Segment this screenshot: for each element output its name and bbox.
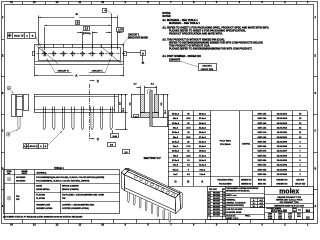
svg-text:'08: '08 (223, 212, 225, 214)
svg-text:CIRCUIT 1: CIRCUIT 1 (92, 70, 103, 72)
svg-text:POLY BAG: POLY BAG (220, 140, 231, 143)
svg-text:5267-02A: 5267-02A (258, 173, 267, 176)
svg-text:'02: '02 (223, 198, 225, 200)
svg-text:3D-MODEL NONE: 3D-MODEL NONE (226, 212, 242, 214)
svg-text:22-03-5007: 22-03-5007 (277, 151, 288, 153)
svg-text:B: B (77, 21, 79, 25)
title block outline (208, 186, 314, 219)
svg-text:SECTION V-V: SECTION V-V (144, 156, 161, 160)
svg-text:12.4±.3: 12.4±.3 (199, 164, 207, 167)
svg-text:±0.2: ±0.2 (260, 200, 263, 202)
svg-text:22-03-5008: 22-03-5008 (277, 146, 288, 148)
svg-text:DRWN: DRWN (268, 216, 272, 218)
svg-text:22-03-5003: 22-03-5003 (277, 169, 288, 171)
svg-text:18.5±.3: 18.5±.3 (172, 151, 180, 153)
svg-text:DOCUMENT STATUS: P1 RELEASE: DOCUMENT STATUS: P1 RELEASE DATE: 2009/0… (3, 216, 83, 219)
molex logo (265, 188, 314, 195)
dimension A (35, 66, 124, 78)
svg-text:22-03-5013: 22-03-5013 (277, 123, 288, 125)
svg-text:ORDER NO: ORDER NO (276, 183, 288, 185)
svg-text:5267-03A: 5267-03A (258, 168, 267, 171)
datum flag near top view (127, 51, 146, 64)
top view base flange lines (35, 61, 124, 63)
svg-text:36±.3: 36±.3 (173, 118, 179, 120)
svg-text:5267-11A: 5267-11A (258, 131, 267, 134)
svg-text:REVISED: REVISED (213, 206, 221, 208)
svg-text:PLEASE REFER TO 5267(W2B)/5264: PLEASE REFER TO 5267(W2B)/5264(W2W) FOR … (169, 48, 252, 51)
svg-text:HOUSING: HOUSING (16, 177, 26, 179)
svg-text:16±.3: 16±.3 (173, 155, 179, 157)
svg-text:SERIES NO: SERIES NO (241, 183, 252, 185)
svg-text:11±.3: 11±.3 (173, 165, 179, 167)
svg-text:C2: C2 (208, 212, 210, 214)
svg-text:REVISED: REVISED (213, 204, 221, 206)
balloon 1 (7, 86, 13, 93)
svg-text:37.4±.3: 37.4±.3 (199, 117, 207, 120)
section base small box (134, 115, 139, 119)
notes text block (162, 13, 269, 61)
svg-text:13.5±.3: 13.5±.3 (172, 160, 180, 162)
svg-text:BASE: BASE (36, 185, 42, 188)
svg-text:B1: B1 (208, 198, 210, 200)
svg-text:REVISED: REVISED (213, 198, 221, 200)
callout CIRCUIT 1 INDICATOR MARK (122, 35, 148, 46)
svg-text:8.5±.3: 8.5±.3 (173, 169, 180, 171)
svg-text:REVISED: REVISED (213, 215, 221, 217)
svg-text:REVISED: REVISED (213, 195, 221, 197)
svg-text:CIRCUIT N: CIRCUIT N (58, 70, 69, 72)
isometric pin holes (134, 175, 174, 197)
svg-text:REVISED: REVISED (213, 209, 221, 211)
svg-text:5267NA: 5267NA (242, 143, 250, 146)
svg-text:REVISED: REVISED (213, 201, 221, 203)
section dim left (128, 94, 140, 117)
svg-text:5267-09A: 5267-09A (258, 140, 267, 143)
approval row (268, 213, 310, 220)
svg-text:38.5±.3: 38.5±.3 (172, 114, 180, 116)
svg-text:B3: B3 (208, 204, 210, 206)
balloon 2 (6, 130, 18, 137)
svg-text:ENG NO: ENG NO (258, 183, 267, 185)
svg-text:26±.3: 26±.3 (173, 137, 179, 139)
table 1 material table (4, 167, 120, 214)
svg-text:INDICATOR MARK: INDICATOR MARK (128, 37, 148, 40)
svg-text:28.5±.3: 28.5±.3 (172, 132, 180, 134)
svg-text:CHKD: CHKD (278, 216, 282, 218)
svg-text:5267-04A: 5267-04A (258, 164, 267, 167)
svg-text:5267-15A: 5267-15A (258, 113, 267, 116)
section dims right (153, 94, 169, 126)
svg-text:POLYAMIDE(PA), UL94V-0, COLOR:: POLYAMIDE(PA), UL94V-0, COLOR: NATURAL (… (36, 179, 89, 182)
isometric pins (128, 192, 171, 222)
isometric view connector (121, 168, 182, 213)
svg-text:22003075: 22003075 (169, 58, 181, 61)
svg-text:1.75: 1.75 (118, 30, 123, 32)
svg-text:CHKD: CHKD (278, 214, 282, 216)
svg-text:PLATING: PLATING (36, 197, 45, 200)
svg-text:19.9±.3: 19.9±.3 (199, 151, 207, 153)
svg-text:5267-06A: 5267-06A (258, 154, 267, 157)
dimension 0.64 square pin (111, 130, 119, 138)
svg-text:TIN: TIN (62, 198, 66, 200)
svg-text:22-03-5011: 22-03-5011 (277, 132, 288, 134)
section V-V left wall hatched (141, 95, 145, 113)
side view right dimensions (116, 94, 128, 130)
svg-text:SHEET 1 OF 2: SHEET 1 OF 2 (226, 218, 238, 220)
svg-text:PACKING SPEC: PACKING SPEC (217, 178, 233, 181)
svg-text:'07: '07 (223, 209, 225, 211)
dimension B basic (44, 9, 111, 51)
svg-text:NOTES-: NOTES- (162, 13, 171, 15)
svg-text:GENERAL TOLERANCE: GENERAL TOLERANCE (226, 201, 246, 204)
document number row (265, 207, 314, 213)
svg-text:C1: C1 (208, 209, 210, 211)
svg-text:UNDERPLATE: UNDERPLATE (36, 203, 50, 206)
svg-text:B2: B2 (208, 201, 210, 203)
svg-text:22-03-5005: 22-03-5005 (277, 160, 288, 162)
svg-text:22-03-5015: 22-03-5015 (277, 114, 288, 116)
svg-text:REVISED: REVISED (213, 192, 221, 194)
svg-text:CIRCUITS: CIRCUITS (296, 179, 305, 181)
svg-text:(UNLESS SPECIFIED): (UNLESS SPECIFIED) (226, 205, 244, 207)
svg-text:REV: REV (293, 208, 296, 210)
svg-text:ORDER NO: ORDER NO (276, 179, 288, 181)
svg-text:33.5±.3: 33.5±.3 (172, 123, 180, 125)
svg-text:5267-05A: 5267-05A (258, 159, 267, 162)
svg-text:21±.3: 21±.3 (173, 146, 179, 148)
svg-text:NO.: NO. (7, 173, 11, 175)
section V-V base hatched (141, 113, 159, 118)
top view left polarization tab (33, 52, 35, 56)
svg-text:22-03-5012: 22-03-5012 (277, 128, 288, 130)
svg-text:32.4±.3: 32.4±.3 (199, 127, 207, 130)
top view centerline (37, 53, 126, 55)
svg-text:POLYBAG: POLYBAG (220, 143, 231, 146)
svg-text:0.8: 0.8 (135, 116, 138, 118)
svg-text:TIN PLATED : 2 MICROMETERS MIN: TIN PLATED : 2 MICROMETERS MIN. OVER (62, 193, 105, 196)
svg-text:5267-13A: 5267-13A (258, 122, 267, 125)
svg-text:5267-07A: 5267-07A (258, 150, 267, 153)
svg-text:22.4±.3: 22.4±.3 (199, 145, 207, 148)
svg-text:5267-08A: 5267-08A (258, 145, 267, 148)
svg-text:CIRCUIT 1: CIRCUIT 1 (128, 35, 140, 37)
svg-text:'00: '00 (223, 195, 225, 197)
svg-text:molex: molex (279, 188, 299, 195)
label CIRCUIT N (47, 59, 72, 73)
section dims top (134, 84, 157, 94)
svg-text:PACKAGING: PACKAGING (219, 182, 232, 185)
dimension table (168, 111, 308, 187)
svg-text:MATERIAL - SEE TABLE 1: MATERIAL - SEE TABLE 1 (169, 22, 200, 25)
GD&T feature frame top view (8, 33, 47, 57)
svg-text:UNITS : mm: UNITS : mm (226, 195, 237, 197)
section line V-V (90, 79, 100, 141)
svg-text:5267-12A: 5267-12A (258, 127, 267, 130)
svg-text:DRWN: DRWN (268, 214, 272, 216)
svg-text:39.9±.3: 39.9±.3 (199, 114, 207, 116)
svg-text:1/2: 1/2 (306, 215, 310, 219)
svg-text:'05: '05 (223, 204, 225, 206)
svg-text:7.4±.3: 7.4±.3 (199, 173, 206, 176)
svg-text:'09: '09 (223, 215, 225, 217)
svg-text:Δ4. PART NUMBER - ORDER NO: Δ4. PART NUMBER - ORDER NO (162, 55, 201, 58)
section V-V pin (148, 89, 153, 126)
top view pin circles (42, 44, 114, 56)
side view pins below (43, 113, 112, 130)
svg-text:CIRCUIT SIZE: CIRCUIT SIZE (295, 183, 305, 185)
svg-text:(PITCH): (PITCH) (83, 33, 91, 35)
svg-text:22-03-5006: 22-03-5006 (277, 155, 288, 157)
svg-text:22-03-5009: 22-03-5009 (277, 141, 288, 143)
svg-text:PLATING: PLATING (36, 193, 45, 196)
side view pins inside body (44, 107, 113, 113)
top view break diagonal left (36, 46, 58, 64)
end view left (12, 95, 29, 130)
svg-text:BRASS (C2680R): BRASS (C2680R) (62, 188, 79, 191)
svg-text:16~: 16~ (253, 203, 256, 205)
svg-text:NOTES:: NOTES: (162, 16, 171, 18)
svg-text:24.9±.3: 24.9±.3 (199, 140, 207, 143)
svg-text:Ø0.25: Ø0.25 (14, 36, 20, 38)
svg-text:PRODUCT SPECIFICATION AND MATE: PRODUCT SPECIFICATION AND MATE WITH. (169, 33, 223, 36)
svg-text:31±.3: 31±.3 (173, 128, 179, 130)
section small box dim (123, 150, 130, 154)
svg-text:ENG NO: ENG NO (258, 179, 267, 181)
svg-text:SERIES NO: SERIES NO (241, 179, 252, 181)
svg-text:4~: 4~ (253, 199, 255, 202)
svg-text:±0.3: ±0.3 (260, 203, 263, 205)
svg-text:PART: PART (22, 172, 28, 175)
svg-text:27.4±.3: 27.4±.3 (199, 136, 207, 139)
label CIRCUIT 1 (89, 59, 111, 73)
top view connector body (35, 45, 124, 65)
svg-text:'06: '06 (223, 206, 225, 208)
svg-text:BASE METAL:: BASE METAL: (36, 188, 50, 191)
svg-text:Ø0.25: Ø0.25 (30, 146, 35, 148)
svg-text:GENERAL: GENERAL (226, 199, 236, 202)
svg-text:REVISED: REVISED (213, 212, 221, 214)
svg-text:BRASS (C2680R): BRASS (C2680R) (62, 185, 79, 188)
svg-text:HOUSING: HOUSING (16, 181, 26, 183)
svg-text:22-03-5010: 22-03-5010 (277, 137, 288, 139)
svg-text:PIN: PIN (16, 196, 20, 198)
dimension G (38, 12, 117, 49)
title text (265, 196, 314, 208)
svg-text:PIN: PIN (16, 199, 20, 201)
svg-text:5267-14A: 5267-14A (258, 117, 267, 120)
dimension 1.75 (106, 28, 124, 33)
svg-text:A: A (142, 51, 144, 55)
svg-text:CIRCUIT SIZE: CIRCUIT SIZE (201, 69, 214, 71)
top view right polarization tab (124, 52, 127, 56)
svg-text:22-03-5002: 22-03-5002 (277, 174, 288, 176)
tolerance block (226, 187, 265, 220)
svg-text:PROJ.: PROJ. (245, 216, 251, 218)
top view break diagonal right (100, 46, 122, 64)
dimension 0.8 box (108, 143, 116, 147)
svg-text:COPPER : 1 MICROMETERS MIN.: COPPER : 1 MICROMETERS MIN. (62, 204, 95, 206)
side view body (34, 94, 119, 113)
section V-V right wall hatched (155, 95, 159, 113)
svg-text:17.4±.3: 17.4±.3 (199, 154, 207, 157)
svg-text:22-03-5004: 22-03-5004 (277, 164, 288, 167)
svg-text:D1: D1 (208, 215, 210, 217)
svg-text:14.9±.3: 14.9±.3 (199, 159, 207, 162)
svg-text:29.9±.3: 29.9±.3 (199, 132, 207, 134)
svg-text:REV HIST: REV HIST (209, 189, 218, 191)
svg-text:34.9±.3: 34.9±.3 (199, 122, 207, 125)
GD&T feature frame pins (24, 131, 63, 149)
svg-text:CAD FILE 2D-DWG: CAD FILE 2D-DWG (226, 208, 243, 211)
svg-text:'99: '99 (223, 192, 225, 194)
circuit size callout box (181, 61, 217, 71)
svg-text:MATERIAL: MATERIAL (37, 171, 48, 174)
svg-text:23.5±.3: 23.5±.3 (172, 141, 180, 143)
svg-text:B: B (187, 180, 189, 184)
dimension 2.5 pitch (77, 27, 98, 51)
svg-text:UNDERPLATING: UNDERPLATING (36, 207, 53, 210)
svg-text:22-03-5014: 22-03-5014 (277, 117, 288, 120)
svg-text:COPPER (UNDERPLATING): COPPER (UNDERPLATING) (62, 207, 89, 210)
revision table (208, 188, 227, 219)
svg-text:'03: '03 (223, 201, 225, 203)
svg-text:9.9±.3: 9.9±.3 (199, 169, 206, 171)
svg-text:POLYAMIDE(PA)(GLASS FILLED), U: POLYAMIDE(PA)(GLASS FILLED), UL94V-0, CO… (36, 176, 104, 179)
svg-text:5267-10A: 5267-10A (258, 136, 267, 139)
svg-text:CIRCUITS: CIRCUITS (202, 66, 212, 68)
